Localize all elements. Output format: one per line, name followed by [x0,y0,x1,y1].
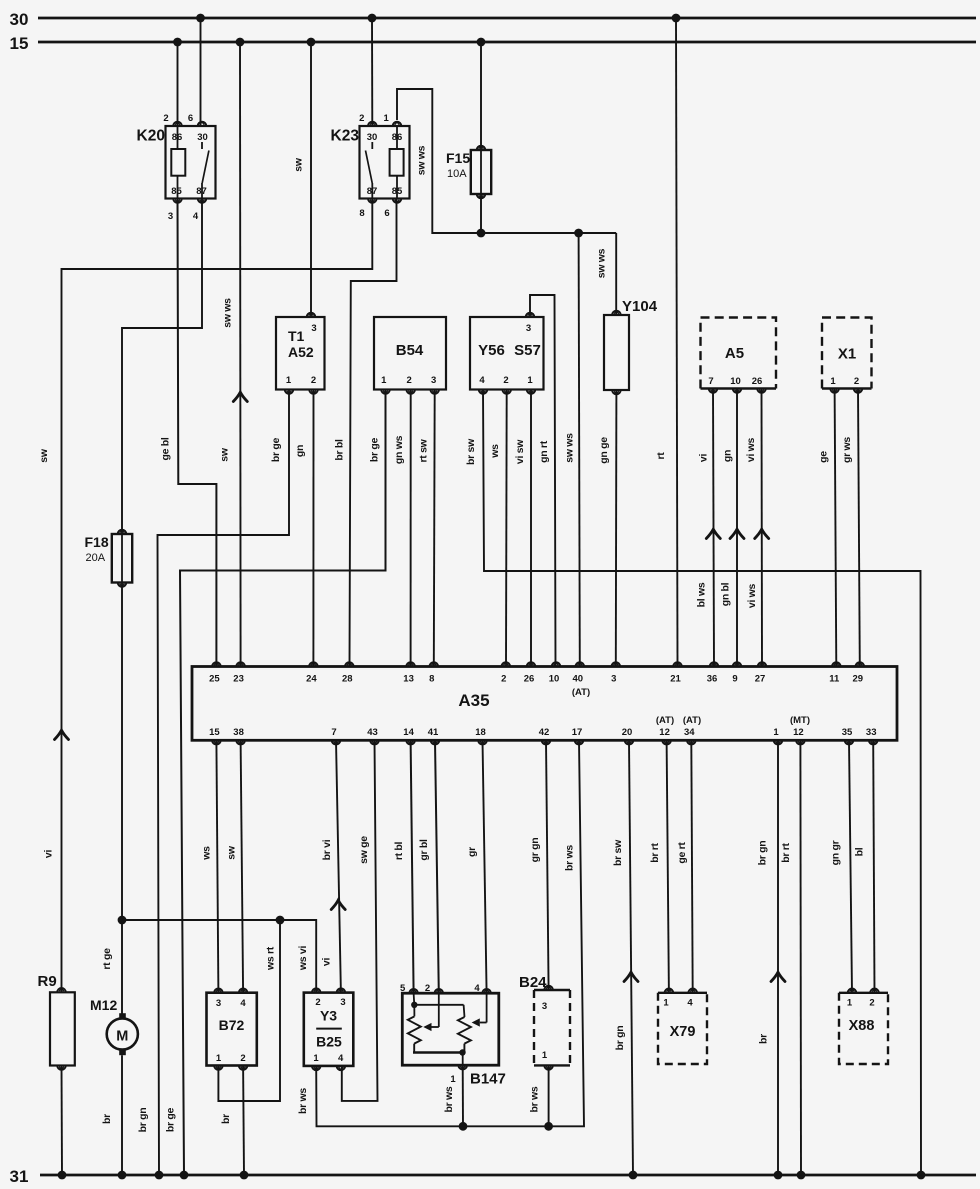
junction F15 / node row [477,229,486,238]
svg-text:B54: B54 [396,342,424,359]
svg-text:ge bl: ge bl [160,437,172,460]
wire F15 to node row [480,194,482,233]
svg-text:X1: X1 [838,346,856,363]
wire bus30 to K23 pin2 [371,18,373,126]
junction pin20 wire / bus31 [629,1171,638,1180]
wire X1 pin2 to A35 pin29 (gr ws) [841,389,860,667]
svg-text:10A: 10A [447,168,467,180]
wire A35 pin15 to B72 pin3 (ws) [201,740,219,992]
junction B72 / bus31 [240,1171,249,1180]
wire Y104 to A35 pin3 (gn ge) [598,390,617,667]
relay K23 [331,113,410,219]
svg-text:M: M [116,1029,128,1045]
svg-text:3: 3 [611,674,616,685]
junction ws-rt riser / node y920 [276,916,285,925]
svg-text:26: 26 [524,674,535,685]
svg-text:br ws: br ws [297,1088,309,1114]
junction sw-ws drop / node row [574,229,583,238]
svg-text:Y104: Y104 [622,298,658,315]
svg-text:ge: ge [818,451,830,463]
svg-text:F18: F18 [85,534,109,550]
wire A5 pin26 to A35 pin27 (vi ws) [745,389,769,667]
sensor B24 (dashed) [519,974,570,1070]
wire A35 pin35 to X88 pin1 (gn gr) [829,740,852,993]
junction B24 / sensor-ground rail [544,1122,553,1131]
svg-text:3: 3 [542,1001,547,1012]
solenoid valve Y104 [604,298,658,394]
svg-text:29: 29 [853,674,864,685]
svg-text:ws: ws [489,444,501,459]
wire K20 pin3 to A35 pin25 (ge bl) [160,199,217,667]
svg-text:sw: sw [219,447,231,462]
svg-text:vi: vi [321,958,333,967]
fuse F15 10A [446,146,491,199]
svg-text:30: 30 [10,10,29,29]
svg-text:sw ge: sw ge [358,836,370,864]
sensor B54 [374,317,446,394]
wire A35 pin20 to bus31 (br sw / br gn) [612,740,638,1175]
junction M12 feed / node y920 [118,916,127,925]
svg-text:br bl: br bl [334,439,346,461]
svg-text:2: 2 [359,113,364,124]
wire bus30 to K20 pin6 [200,18,202,126]
wire bus30 to A35 pin21 (rt) [655,18,678,667]
connector X88 (dashed) [839,989,888,1065]
control unit A5 (dashed) [701,318,777,393]
svg-text:(MT): (MT) [790,715,810,726]
svg-text:gr: gr [466,847,478,857]
svg-text:vi: vi [698,454,710,463]
svg-text:br sw: br sw [465,438,477,465]
svg-text:br: br [758,1034,770,1044]
svg-text:20A: 20A [86,552,106,564]
svg-text:24: 24 [306,674,317,685]
junction pin12MT wire / bus31 [797,1171,806,1180]
junction bus30 / K20 pin6 [196,14,205,23]
connector X1 (dashed) [822,318,872,393]
svg-text:1: 1 [663,998,669,1009]
wire A35 pin42 to B24 pin3 (gr gn) [529,740,549,990]
junction bus30 / rt wire [672,14,681,23]
wire A35 pin12(MT) to bus31 (br rt) [780,740,801,1175]
svg-text:bl ws: bl ws [696,582,708,607]
svg-text:br ws: br ws [443,1086,455,1112]
svg-text:vi ws: vi ws [746,583,758,608]
svg-text:ws vi: ws vi [297,946,309,972]
wire A35 pin34 to X79 pin4 (ge rt) [676,740,693,993]
svg-text:5: 5 [400,983,406,994]
wire M12 to bus31 (br) [101,1055,122,1175]
svg-text:br: br [101,1114,113,1124]
svg-text:1: 1 [381,375,387,386]
svg-text:42: 42 [539,727,550,738]
svg-text:gn ge: gn ge [598,437,610,464]
svg-text:2: 2 [407,375,412,386]
wire B54 pin1 to bus31 (br ge) [165,390,386,1176]
wire F18 to M12 (rt ge) [101,583,122,1014]
svg-text:(AT): (AT) [572,687,590,698]
bus 31 (ground) [10,1167,976,1186]
svg-text:10: 10 [730,376,741,387]
wire bus15 to A35 pin23 (sw ws / sw) [219,42,248,667]
svg-text:X88: X88 [849,1018,875,1034]
svg-text:27: 27 [755,674,766,685]
svg-text:T1: T1 [288,328,305,344]
wire A35 pin43 to Y3 pin4 (sw ge) [342,740,378,1101]
wire Y56 pin1 to A35 pin26 (vi sw) [514,390,531,667]
svg-text:33: 33 [866,727,877,738]
svg-text:B25: B25 [316,1034,342,1050]
svg-text:4: 4 [193,211,199,222]
svg-text:sw: sw [226,845,238,860]
wire A35 pin18 to B147 pin4 (gr) [466,740,487,993]
svg-text:gn bl: gn bl [720,582,732,606]
junction bus15 / F15 wire [477,38,486,47]
svg-text:A35: A35 [458,691,489,710]
junction bus15 / T1 pin3 wire [307,38,316,47]
wire A35 pin41 to B147 pin2 (gr bl) [418,740,439,993]
svg-text:1: 1 [450,1074,456,1085]
svg-text:3: 3 [526,323,531,334]
valve/sensor Y3 B25 [304,988,354,1070]
engine control unit A35 [192,662,897,744]
valve/switch unit Y56 S57 [470,313,544,394]
svg-text:4: 4 [479,375,485,386]
svg-text:1: 1 [830,376,836,387]
wire bus15 to K20 pin2 [177,42,179,126]
junction B147 / sensor-ground rail [459,1122,468,1131]
svg-text:(AT): (AT) [656,715,674,726]
wire R9 to bus31 [61,1066,64,1176]
svg-text:gr bl: gr bl [418,839,430,861]
ignition coil/output stage T1 A52 [276,313,325,394]
svg-text:2: 2 [240,1053,245,1064]
wire node row down to Y104 (sw ws) [596,233,617,315]
svg-text:10: 10 [549,674,560,685]
svg-text:2: 2 [311,375,316,386]
svg-text:2: 2 [425,983,430,994]
svg-text:21: 21 [670,674,681,685]
connector X79 (dashed) [658,989,707,1065]
motor M12 [90,997,138,1055]
svg-text:S57: S57 [514,342,541,359]
svg-text:15: 15 [209,727,220,738]
svg-text:15: 15 [10,34,29,53]
wire T1 pin2 to A35 pin24 (gn) [294,390,314,667]
svg-text:gr ws: gr ws [841,437,853,463]
svg-text:B24: B24 [519,974,547,991]
svg-text:30: 30 [197,132,208,143]
svg-text:1: 1 [216,1053,222,1064]
wire A35 pin7 to Y3 pin3 (br vi / vi) [321,740,346,992]
svg-text:28: 28 [342,674,353,685]
svg-text:A52: A52 [288,344,314,360]
svg-text:K20: K20 [137,128,165,145]
svg-text:12: 12 [793,727,804,738]
svg-text:1: 1 [313,1053,319,1064]
svg-text:17: 17 [572,727,583,738]
svg-text:2: 2 [501,674,506,685]
wire A5 pin7 to A35 pin36 (vi / bl ws) [696,389,721,667]
svg-text:A5: A5 [725,345,744,362]
junction bus15 / sw wire [236,38,245,47]
svg-text:35: 35 [842,727,853,738]
svg-text:11: 11 [829,674,840,685]
svg-text:4: 4 [338,1053,344,1064]
svg-text:sw ws: sw ws [222,298,234,328]
wire K23 pin6 to A35 pin28 (br bl) [334,199,397,667]
wire bus15 to T1 pin3 (sw) [293,42,312,317]
svg-text:rt: rt [655,452,667,460]
svg-text:sw ws: sw ws [564,433,576,463]
wire B72 pin2 to bus31 (br) [220,1066,244,1176]
svg-text:1: 1 [773,727,779,738]
svg-text:20: 20 [622,727,633,738]
svg-text:4: 4 [687,998,693,1009]
svg-text:br vi: br vi [321,839,333,860]
svg-text:gn: gn [294,445,306,457]
svg-text:3: 3 [340,997,345,1008]
svg-text:8: 8 [359,208,364,219]
svg-text:B72: B72 [219,1017,245,1033]
junction T1 ground / bus31 [155,1171,164,1180]
svg-text:4: 4 [240,998,246,1009]
svg-text:Y56: Y56 [478,342,505,359]
svg-text:br ge: br ge [369,437,381,462]
svg-text:gn: gn [722,450,734,462]
svg-text:14: 14 [403,727,414,738]
svg-text:6: 6 [384,208,389,219]
svg-text:7: 7 [708,376,713,387]
svg-text:br: br [220,1114,232,1124]
svg-text:br ws: br ws [564,845,576,871]
wire X1 pin1 to A35 pin11 (ge) [818,389,837,667]
svg-text:vi sw: vi sw [514,439,526,464]
svg-text:3: 3 [168,211,173,222]
wire K23 pin1 jog to node row y233 [397,89,616,233]
svg-text:(AT): (AT) [683,715,701,726]
svg-text:sw: sw [38,448,50,463]
svg-text:8: 8 [429,674,434,685]
svg-text:sw ws: sw ws [596,248,608,278]
svg-text:30: 30 [367,132,378,143]
svg-text:7: 7 [331,727,336,738]
fuel gauge sender B147 [400,983,506,1088]
wire B147 pin1 to sensor-ground rail (br ws) [443,1065,463,1126]
bus 15 (ignition) [10,34,976,53]
svg-text:2: 2 [503,375,508,386]
wire K23 pin8 to R9 (sw / vi) [38,199,372,993]
svg-text:18: 18 [475,727,486,738]
svg-text:br gn: br gn [137,1108,149,1133]
svg-text:X79: X79 [670,1024,696,1040]
svg-text:13: 13 [403,674,414,685]
relay K20 [137,113,216,222]
wire A5 pin10 to A35 pin9 (gn / gn bl) [720,389,744,667]
junction B54 ground / bus31 [180,1171,189,1180]
svg-text:gn gr: gn gr [829,840,841,865]
svg-text:br gn: br gn [757,841,769,866]
svg-text:M12: M12 [90,997,117,1013]
junction R9 / bus31 [58,1171,67,1180]
svg-text:4: 4 [474,983,480,994]
wire A35 pin1 to bus31 (br gn / br) [757,740,785,1175]
svg-text:1: 1 [384,113,390,124]
svg-text:gn ws: gn ws [393,435,405,464]
junction bus15 / K20 pin2 [173,38,182,47]
fuse F18 20A [85,530,133,587]
svg-text:rt sw: rt sw [418,438,430,462]
svg-text:2: 2 [869,998,874,1009]
svg-text:ws: ws [201,846,213,861]
svg-text:1: 1 [847,998,853,1009]
wire A35 pin33 to X88 pin2 (bl) [853,740,874,993]
svg-text:1: 1 [542,1050,548,1061]
svg-text:36: 36 [707,674,718,685]
svg-text:vi ws: vi ws [745,437,757,462]
svg-text:R9: R9 [38,973,57,990]
svg-text:br gn: br gn [614,1026,626,1051]
resistor R9 [38,973,75,1070]
wire A35 pin14 to B147 pin5 (rt bl) [393,740,414,993]
svg-text:gr gn: gr gn [529,838,541,863]
wire B54 pin2 to A35 pin13 (gn ws) [393,390,411,667]
svg-text:ge rt: ge rt [676,842,688,864]
svg-text:25: 25 [209,674,220,685]
wire Y56 pin4 ground rail to bus31 (br sw) [465,390,921,1176]
svg-text:34: 34 [684,727,695,738]
svg-text:br ge: br ge [165,1107,177,1132]
wire node y920 to Y3 pin2 (ws vi) [122,920,316,993]
wire T1 pin1 to bus31 (br ge / br gn) [137,390,289,1176]
svg-text:1: 1 [527,375,533,386]
junction bus30 / K23 pin2 [368,14,377,23]
svg-text:bl: bl [853,847,865,856]
wire node row to A35 pin40 (sw ws) [564,233,580,667]
svg-text:br ws: br ws [529,1086,541,1112]
wire A35 pin17 / Y3 pin1 sensor-ground rail (br ws) [297,740,584,1126]
svg-text:br rt: br rt [780,842,792,862]
svg-text:41: 41 [428,727,439,738]
wire A35 pin38 to B72 pin4 (sw) [226,740,244,992]
svg-text:38: 38 [233,727,244,738]
svg-text:2: 2 [315,997,320,1008]
svg-text:br rt: br rt [649,842,661,862]
svg-text:40: 40 [573,674,584,685]
svg-text:sw: sw [293,157,305,172]
svg-text:9: 9 [732,674,737,685]
svg-text:2: 2 [163,113,168,124]
wire Y56 pin2 to A35 pin2 (ws) [489,390,507,667]
svg-text:vi: vi [43,850,55,859]
svg-text:1: 1 [286,375,292,386]
svg-text:12: 12 [659,727,670,738]
svg-text:br sw: br sw [612,839,624,866]
svg-text:3: 3 [216,998,221,1009]
svg-text:br ge: br ge [270,437,282,462]
junction M12 / bus31 [118,1171,127,1180]
svg-text:6: 6 [188,113,193,124]
wire B54 pin3 to A35 pin8 (rt sw) [418,390,435,667]
svg-text:2: 2 [854,376,859,387]
wire bus15 to F15 [480,42,482,150]
svg-text:43: 43 [367,727,378,738]
wire B72 pin1 loop to node y920 (ws rt) [218,920,280,1101]
svg-text:31: 31 [10,1167,29,1186]
svg-text:sw ws: sw ws [416,145,428,175]
svg-text:rt bl: rt bl [393,841,405,860]
sensor B72 [207,988,257,1069]
svg-text:3: 3 [311,323,316,334]
svg-text:gn rt: gn rt [538,440,550,463]
wire B24 pin1 to sensor-ground rail (br ws) [529,1065,549,1126]
wire K20 pin4 to F18 [122,199,202,535]
junction ground rail / bus31 [917,1171,926,1180]
svg-text:23: 23 [233,674,244,685]
bus 30 (battery +) [10,10,976,29]
svg-text:3: 3 [431,375,436,386]
svg-text:F15: F15 [446,150,470,166]
svg-text:K23: K23 [331,128,360,145]
junction pin1 wire / bus31 [774,1171,783,1180]
wire A35 pin12(AT) to X79 pin1 (br rt) [649,740,669,993]
svg-text:B147: B147 [470,1071,506,1088]
wire S57 pin3 to A35 pin10 (gn rt) [530,295,556,667]
svg-text:rt ge: rt ge [101,948,113,970]
svg-text:Y3: Y3 [320,1008,337,1024]
svg-text:26: 26 [752,376,763,387]
svg-text:ws rt: ws rt [265,946,277,971]
